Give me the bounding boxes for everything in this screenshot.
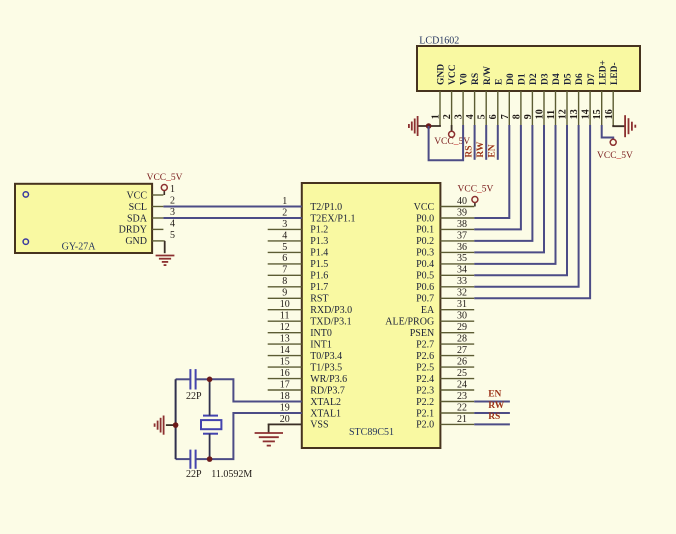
wire MCU pin21 net RS: [474, 423, 510, 425]
node crystal ground junction: [173, 422, 179, 428]
wire LCD D7 to MCU P0.7: [474, 125, 590, 298]
LCD1602 component body: [417, 46, 640, 91]
MCU pin 14 stub: [268, 355, 302, 357]
svg-text:D4: D4: [552, 73, 562, 85]
svg-text:P1.4: P1.4: [310, 248, 328, 259]
wire GY-27A GND to ground: [163, 240, 164, 242]
LCD pin 9 stub: [531, 91, 533, 125]
MCU pin 3 stub: [268, 228, 302, 230]
GY-27A pin 3 stub: [152, 217, 163, 219]
svg-text:RS: RS: [488, 412, 500, 422]
LCD pin 1 stub: [439, 91, 441, 125]
GY-27A pin 5 stub: [152, 240, 163, 242]
svg-text:D6: D6: [575, 73, 585, 85]
MCU pin 24 stub: [440, 389, 474, 391]
svg-text:31: 31: [457, 299, 467, 310]
svg-text:20: 20: [280, 414, 290, 425]
wire left vertical of crystal loop: [175, 379, 177, 459]
wire LCD pin5 net RW: [485, 125, 487, 160]
power port VCC_5V (LCD pin2): [449, 131, 455, 137]
svg-text:11.0592M: 11.0592M: [211, 469, 252, 480]
wire LCD pin6 net EN: [497, 125, 499, 160]
svg-text:8: 8: [511, 114, 522, 119]
MCU pin 31 stub: [440, 309, 474, 311]
MCU pin 21 stub: [440, 423, 474, 425]
wire MCU pin22 net RW: [474, 412, 510, 414]
op STC89C51 component body: [302, 183, 441, 448]
LCD pin 5 stub: [485, 91, 487, 125]
svg-text:6: 6: [282, 253, 287, 264]
svg-text:14: 14: [280, 345, 290, 356]
wire crystal bottom: [209, 434, 211, 459]
svg-text:P2.1: P2.1: [416, 408, 434, 419]
svg-text:VCC_5V: VCC_5V: [597, 151, 633, 161]
wire LCD D6 to MCU P0.6: [474, 125, 578, 287]
GY-27A component body: [15, 184, 152, 253]
svg-text:10: 10: [535, 109, 546, 119]
svg-text:24: 24: [457, 379, 467, 390]
wire top cap right: [196, 378, 210, 380]
svg-text:15: 15: [280, 357, 290, 368]
ground (VSS): [255, 432, 283, 434]
MCU pin 6 stub: [268, 263, 302, 265]
MCU pin 25 stub: [440, 378, 474, 380]
svg-text:5: 5: [282, 242, 287, 253]
svg-text:VCC_5V: VCC_5V: [147, 173, 183, 183]
GY-27A pin 4 stub: [152, 228, 163, 230]
svg-text:8: 8: [282, 276, 287, 287]
svg-text:RW: RW: [488, 401, 505, 411]
svg-text:5: 5: [477, 114, 488, 119]
MCU pin 19 stub: [268, 412, 302, 414]
LCD pin 6 stub: [497, 91, 499, 125]
svg-text:13: 13: [280, 334, 290, 345]
MCU pin 12 stub: [268, 332, 302, 334]
svg-text:T0/P3.4: T0/P3.4: [310, 351, 342, 362]
svg-text:LCD1602: LCD1602: [419, 36, 459, 47]
svg-text:10: 10: [280, 299, 290, 310]
LCD pin 3 stub: [462, 91, 464, 125]
wire MCU pin23 net EN: [474, 401, 510, 403]
MCU pin 36 stub: [440, 251, 474, 253]
svg-text:ALE/PROG: ALE/PROG: [385, 317, 434, 328]
svg-text:19: 19: [280, 402, 290, 413]
MCU pin 2 stub: [268, 217, 302, 219]
LCD pin 15 stub: [601, 91, 603, 125]
ground (crystal): [163, 416, 165, 435]
MCU pin 4 stub: [268, 240, 302, 242]
svg-text:39: 39: [457, 207, 467, 218]
svg-text:VCC_5V: VCC_5V: [434, 137, 470, 147]
LCD pin 10 stub: [543, 91, 545, 125]
MCU pin 5 stub: [268, 251, 302, 253]
wire LCD pin16 LED- to ground: [613, 125, 625, 126]
MCU pin 27 stub: [440, 355, 474, 357]
svg-text:EN: EN: [488, 144, 498, 157]
wire SDA GY-27A to MCU P1.1: [163, 217, 301, 219]
MCU pin 34 stub: [440, 274, 474, 276]
svg-text:P1.5: P1.5: [310, 259, 328, 270]
LCD pin 13 stub: [578, 91, 580, 125]
power port VCC_5V (GY-27A): [161, 185, 167, 191]
MCU pin 23 stub: [440, 401, 474, 403]
wire LCD D2 to MCU P0.2: [474, 125, 532, 241]
svg-text:33: 33: [457, 276, 467, 287]
svg-text:D3: D3: [541, 73, 551, 85]
svg-text:P0.4: P0.4: [416, 259, 434, 270]
MCU pin 16 stub: [268, 378, 302, 380]
LCD pin 12 stub: [566, 91, 568, 125]
wire LCD D5 to MCU P0.5: [474, 125, 567, 275]
svg-text:RW: RW: [476, 141, 486, 158]
svg-text:P0.0: P0.0: [416, 213, 434, 224]
svg-text:P2.5: P2.5: [416, 362, 434, 373]
svg-text:13: 13: [569, 109, 580, 119]
svg-text:GND: GND: [125, 236, 147, 247]
MCU pin 18 stub: [268, 401, 302, 403]
svg-text:P1.3: P1.3: [310, 236, 328, 247]
svg-text:1: 1: [170, 184, 175, 195]
wire LCD D1 to MCU P0.1: [474, 125, 521, 229]
MCU pin 8 stub: [268, 286, 302, 288]
svg-text:35: 35: [457, 253, 467, 264]
svg-text:DRDY: DRDY: [119, 225, 147, 236]
wire XTAL1 MCU pin19 to crystal bottom: [210, 413, 302, 459]
wire SCL GY-27A to MCU P1.0: [163, 206, 301, 208]
svg-text:P1.6: P1.6: [310, 271, 328, 282]
svg-text:RST: RST: [310, 294, 328, 305]
MCU pin 9 stub: [268, 297, 302, 299]
power port VCC_5V (LED+): [610, 139, 616, 145]
svg-text:2: 2: [282, 207, 287, 218]
GY-27A pin 1 stub: [152, 194, 163, 196]
svg-text:3: 3: [282, 219, 287, 230]
GY-27A mounting hole top: [23, 192, 28, 197]
svg-text:38: 38: [457, 219, 467, 230]
MCU pin 13 stub: [268, 343, 302, 345]
MCU pin 38 stub: [440, 228, 474, 230]
svg-text:GND: GND: [437, 64, 447, 85]
svg-text:3: 3: [170, 207, 175, 218]
svg-text:7: 7: [500, 114, 511, 119]
wire LCD D0 to MCU P0.0: [474, 125, 509, 218]
wire LCD pin1 to ground: [418, 125, 440, 126]
svg-text:EN: EN: [488, 389, 501, 399]
MCU pin 35 stub: [440, 263, 474, 265]
svg-text:26: 26: [457, 357, 467, 368]
svg-text:XTAL1: XTAL1: [310, 408, 341, 419]
svg-text:P2.3: P2.3: [416, 385, 434, 396]
svg-text:2: 2: [442, 114, 453, 119]
LCD pin 2 stub: [451, 91, 453, 125]
wire MCU pin20 VSS to ground: [269, 424, 302, 432]
power port VCC_5V (MCU VCC): [472, 197, 478, 203]
svg-text:37: 37: [457, 230, 467, 241]
svg-text:INT1: INT1: [310, 339, 332, 350]
MCU pin 1 stub: [268, 206, 302, 208]
capacitor C1 22P (top): [189, 369, 191, 389]
wire LCD pin3 V0 to ground junction: [429, 125, 464, 160]
svg-text:25: 25: [457, 368, 467, 379]
svg-text:1: 1: [282, 196, 287, 207]
wire LCD D4 to MCU P0.4: [474, 125, 555, 264]
capacitor C2 22P (bottom): [189, 450, 191, 469]
svg-text:3: 3: [454, 114, 465, 119]
svg-text:22: 22: [457, 402, 467, 413]
svg-text:D2: D2: [529, 73, 539, 85]
ground (LED-): [624, 115, 626, 137]
svg-text:VSS: VSS: [310, 420, 328, 431]
wire bottom cap left: [176, 458, 191, 460]
svg-text:V0: V0: [460, 73, 470, 85]
MCU pin 20 stub: [268, 423, 302, 425]
svg-text:5: 5: [170, 230, 175, 241]
svg-text:LED-: LED-: [610, 62, 620, 85]
svg-text:P0.5: P0.5: [416, 271, 434, 282]
svg-text:2: 2: [170, 196, 175, 207]
svg-text:4: 4: [282, 230, 287, 241]
svg-text:SDA: SDA: [127, 213, 148, 224]
MCU pin 28 stub: [440, 343, 474, 345]
svg-text:D5: D5: [564, 73, 574, 85]
svg-text:PSEN: PSEN: [410, 328, 434, 339]
MCU pin 29 stub: [440, 332, 474, 334]
svg-text:40: 40: [457, 196, 467, 207]
wire ground tap: [166, 424, 176, 426]
wire top cap left: [176, 378, 191, 380]
MCU pin 37 stub: [440, 240, 474, 242]
svg-text:14: 14: [581, 109, 592, 119]
svg-text:4: 4: [465, 114, 476, 119]
svg-text:GY-27A: GY-27A: [62, 242, 97, 253]
wire bottom cap right: [196, 458, 210, 460]
LCD pin 4 stub: [474, 91, 476, 125]
svg-text:P0.1: P0.1: [416, 225, 434, 236]
svg-text:1: 1: [431, 114, 442, 119]
svg-text:D0: D0: [506, 73, 516, 85]
node junction LCD GND/V0: [426, 123, 432, 129]
svg-text:27: 27: [457, 345, 467, 356]
svg-text:VCC: VCC: [414, 202, 435, 213]
LCD pin 16 stub: [612, 91, 614, 125]
wire XTAL2 MCU pin18 to crystal top: [210, 379, 302, 401]
MCU pin 22 stub: [440, 412, 474, 414]
svg-text:P0.2: P0.2: [416, 236, 434, 247]
svg-text:RS: RS: [464, 145, 474, 157]
svg-text:D1: D1: [518, 73, 528, 85]
svg-text:INT0: INT0: [310, 328, 332, 339]
svg-text:XTAL2: XTAL2: [310, 397, 341, 408]
MCU pin 7 stub: [268, 274, 302, 276]
MCU pin 11 stub: [268, 320, 302, 322]
svg-text:9: 9: [282, 288, 287, 299]
svg-text:E: E: [494, 79, 504, 85]
svg-text:T2/P1.0: T2/P1.0: [310, 202, 342, 213]
svg-text:18: 18: [280, 391, 290, 402]
MCU pin 15 stub: [268, 366, 302, 368]
MCU pin 26 stub: [440, 366, 474, 368]
svg-text:RS: RS: [471, 73, 481, 85]
LCD pin 14 stub: [589, 91, 591, 125]
svg-text:16: 16: [604, 109, 615, 119]
svg-text:28: 28: [457, 334, 467, 345]
svg-text:TXD/P3.1: TXD/P3.1: [310, 317, 351, 328]
svg-text:29: 29: [457, 322, 467, 333]
svg-text:VCC: VCC: [126, 190, 147, 201]
svg-text:P1.7: P1.7: [310, 282, 328, 293]
node crystal bottom junction: [207, 456, 213, 462]
ground (GY-27A): [156, 255, 175, 257]
svg-text:12: 12: [280, 322, 290, 333]
svg-text:P2.4: P2.4: [416, 374, 434, 385]
wire LCD pin2 to VCC_5V: [451, 125, 453, 131]
svg-text:VCC_5V: VCC_5V: [458, 185, 494, 195]
svg-text:P0.3: P0.3: [416, 248, 434, 259]
svg-text:34: 34: [457, 265, 467, 276]
ground (LCD pin1): [417, 116, 419, 136]
svg-text:P2.0: P2.0: [416, 420, 434, 431]
LCD pin 7 stub: [508, 91, 510, 125]
MCU pin 30 stub: [440, 320, 474, 322]
svg-text:12: 12: [558, 109, 569, 119]
MCU pin 39 stub: [440, 217, 474, 219]
wire crystal top: [209, 379, 211, 415]
svg-text:22P: 22P: [186, 469, 202, 480]
LCD pin 11 stub: [555, 91, 557, 125]
svg-text:23: 23: [457, 391, 467, 402]
svg-text:11: 11: [546, 110, 557, 119]
svg-text:RXD/P3.0: RXD/P3.0: [310, 305, 352, 316]
svg-text:STC89C51: STC89C51: [349, 427, 394, 438]
svg-text:P0.6: P0.6: [416, 282, 434, 293]
svg-text:21: 21: [457, 414, 467, 425]
svg-text:P0.7: P0.7: [416, 294, 434, 305]
svg-text:16: 16: [280, 368, 290, 379]
wire LCD pin15 LED+ to VCC_5V: [602, 125, 614, 139]
GY-27A mounting hole bottom: [23, 239, 28, 244]
MCU pin 40 stub: [440, 206, 474, 208]
node crystal top junction: [207, 377, 213, 383]
svg-text:P2.6: P2.6: [416, 351, 434, 362]
svg-text:36: 36: [457, 242, 467, 253]
svg-text:9: 9: [523, 114, 534, 119]
svg-text:WR/P3.6: WR/P3.6: [310, 374, 347, 385]
wire GY-27A VCC to VCC_5V: [163, 190, 165, 195]
svg-text:LED+: LED+: [598, 60, 608, 85]
svg-text:32: 32: [457, 288, 467, 299]
MCU pin 32 stub: [440, 297, 474, 299]
svg-text:P2.7: P2.7: [416, 339, 434, 350]
wire LCD D3 to MCU P0.3: [474, 125, 544, 252]
svg-text:7: 7: [282, 265, 287, 276]
svg-text:T2EX/P1.1: T2EX/P1.1: [310, 213, 355, 224]
wire LCD pin4 net RS: [474, 125, 476, 160]
wire MCU pin40 to VCC_5V: [474, 202, 476, 206]
svg-text:R/W: R/W: [483, 66, 493, 86]
svg-text:P1.2: P1.2: [310, 225, 328, 236]
svg-text:T1/P3.5: T1/P3.5: [310, 362, 342, 373]
MCU pin 33 stub: [440, 286, 474, 288]
svg-text:15: 15: [592, 109, 603, 119]
svg-text:4: 4: [170, 219, 175, 230]
svg-text:17: 17: [280, 379, 290, 390]
svg-text:SCL: SCL: [129, 202, 147, 213]
MCU pin 10 stub: [268, 309, 302, 311]
svg-text:P2.2: P2.2: [416, 397, 434, 408]
svg-text:22P: 22P: [186, 391, 202, 402]
svg-text:VCC: VCC: [448, 64, 458, 85]
svg-text:11: 11: [280, 311, 290, 322]
svg-text:6: 6: [488, 114, 499, 119]
svg-text:RD/P3.7: RD/P3.7: [310, 385, 345, 396]
svg-text:30: 30: [457, 311, 467, 322]
svg-text:D7: D7: [587, 73, 597, 85]
MCU pin 17 stub: [268, 389, 302, 391]
crystal Y1 11.0592M: [203, 415, 218, 417]
svg-text:EA: EA: [421, 305, 435, 316]
LCD pin 8 stub: [520, 91, 522, 125]
GY-27A pin 2 stub: [152, 206, 163, 208]
